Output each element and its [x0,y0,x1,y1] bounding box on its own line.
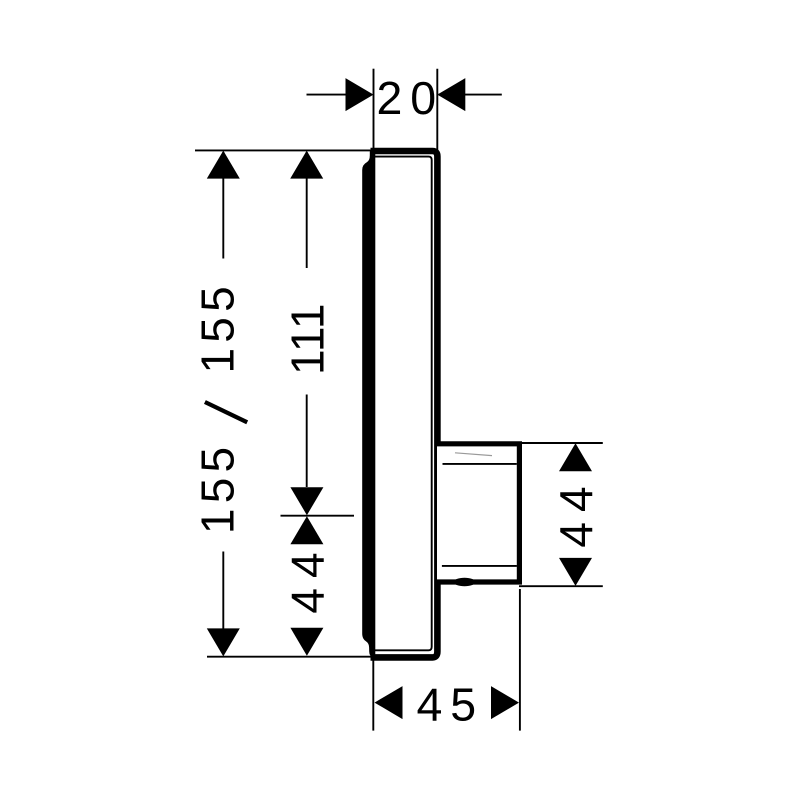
extension line mid (handle center) [281,515,355,517]
extension line top [195,149,372,151]
knob grip bump [454,578,476,586]
dim 155 arrow up [207,151,240,179]
knob inner bottom line [442,565,517,567]
dim 111 arrow down (bowtie upper) [290,487,323,515]
dim 155 line segments [222,152,224,259]
plate outline [371,151,438,657]
dim 44 left arrow down [290,628,323,656]
dim 44 left arrow up (bowtie lower) [290,516,323,544]
svg-text:111: 111 [281,303,333,375]
plate front edge band [362,148,375,658]
dim 111 arrow up [290,151,323,179]
dim 45 arrow right [491,686,519,719]
extension line 20 right [436,69,438,150]
dim 155 slash [205,402,247,422]
knob chamfer line [455,453,492,456]
svg-text:155: 155 [192,281,244,373]
dim 20: arrow right-pointing [346,78,374,111]
svg-text:155: 155 [192,442,244,534]
extension line 45 right [519,589,521,731]
knob outline [437,444,519,582]
extension line knob bottom [519,585,603,587]
dim 20: arrow left-pointing [437,78,465,111]
extension line 45 left [372,659,374,731]
dim 44 right arrow up [559,443,592,471]
svg-text:44: 44 [550,476,602,547]
dim 155 arrow down [207,628,240,656]
plate inner line [374,157,431,651]
dim 45 arrow left [375,686,403,719]
extension line bottom [207,656,372,658]
extension line 20 left [373,69,375,150]
svg-text:44: 44 [282,542,334,613]
extension line knob top [520,442,603,444]
dim 20: tails [307,94,373,96]
dim 111 line segments [306,152,308,268]
knob inner top line [443,463,517,465]
dim 44 right arrow down [559,558,592,586]
